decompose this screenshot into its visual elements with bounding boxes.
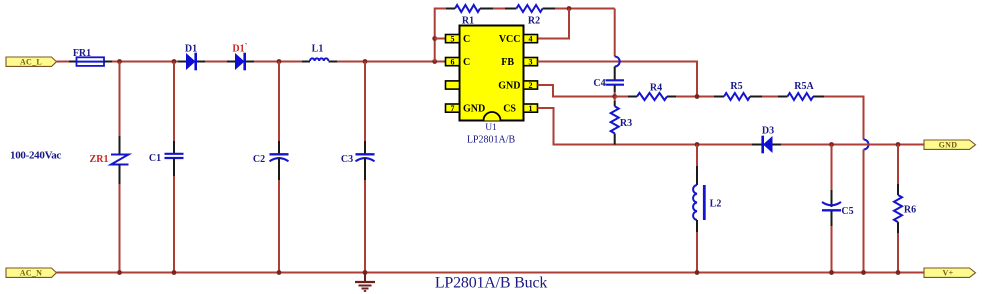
diode D3	[762, 126, 774, 154]
wire	[435, 9, 446, 62]
node junction	[363, 59, 368, 64]
svg-text:AC_N: AC_N	[20, 269, 43, 278]
wire	[57, 61, 70, 63]
svg-text:C4: C4	[593, 78, 605, 89]
wire	[555, 8, 615, 10]
svg-text:GND: GND	[463, 104, 485, 115]
wire	[863, 150, 865, 273]
svg-text:D1: D1	[185, 43, 197, 54]
resistor R6	[894, 145, 916, 273]
wire	[337, 61, 446, 63]
resistor R4	[637, 83, 667, 101]
wire hop	[615, 57, 620, 67]
svg-text:GND: GND	[498, 81, 520, 92]
node junction	[896, 270, 901, 275]
node junction	[117, 270, 122, 275]
svg-text:C: C	[463, 57, 470, 68]
pin 7	[446, 104, 460, 113]
wire	[676, 96, 714, 98]
IC U1 LP2801A/B	[460, 26, 524, 146]
ground	[355, 273, 375, 292]
svg-text:7: 7	[451, 104, 455, 113]
resistor R5A	[788, 81, 815, 100]
diode D1	[185, 43, 197, 70]
svg-text:C5: C5	[841, 206, 853, 217]
svg-text:2: 2	[529, 81, 533, 90]
svg-text:C1: C1	[149, 153, 161, 164]
wire VCC branch	[538, 9, 570, 39]
svg-text:4: 4	[529, 35, 533, 44]
wire	[628, 96, 637, 98]
node junction	[172, 270, 177, 275]
pin 6	[446, 58, 460, 67]
wire	[813, 96, 824, 98]
fuse FR1	[73, 48, 104, 66]
svg-text:L2: L2	[710, 199, 722, 210]
diode D1`	[232, 42, 247, 71]
port AC_L	[6, 57, 57, 67]
svg-text:5: 5	[451, 35, 455, 44]
svg-text:6: 6	[451, 58, 455, 67]
svg-text:D3: D3	[762, 126, 774, 137]
node junction	[829, 270, 834, 275]
node junction	[695, 94, 700, 99]
port GND	[924, 140, 976, 150]
svg-text:R3: R3	[620, 118, 632, 129]
wire	[762, 96, 778, 98]
wire	[773, 144, 782, 146]
pin 5	[446, 35, 460, 44]
node junction	[829, 142, 834, 147]
wire	[205, 61, 227, 63]
node junction	[567, 6, 572, 11]
wire	[329, 61, 338, 63]
svg-text:C2: C2	[253, 154, 265, 165]
port AC_N	[6, 268, 57, 278]
wire	[543, 8, 555, 10]
svg-text:LP2801A/B: LP2801A/B	[467, 135, 516, 146]
wire hop	[864, 140, 869, 150]
wire	[781, 144, 924, 146]
node junction	[277, 270, 282, 275]
svg-text:FB: FB	[501, 57, 514, 68]
svg-text:C: C	[463, 34, 470, 45]
wire pin2	[538, 85, 616, 97]
svg-text:U1: U1	[485, 123, 497, 133]
wire	[824, 97, 864, 140]
pin blank	[446, 81, 460, 89]
svg-text:1: 1	[529, 104, 533, 113]
wire	[69, 61, 77, 63]
varistor ZR1	[90, 62, 129, 273]
svg-text:GND: GND	[939, 141, 958, 150]
wire	[750, 96, 762, 98]
node junction	[432, 59, 437, 64]
svg-text:R4: R4	[650, 83, 662, 94]
resistor R3	[611, 97, 632, 145]
wire	[435, 38, 446, 40]
wire	[667, 96, 676, 98]
svg-text:C3: C3	[341, 154, 353, 165]
wire R4 row	[615, 96, 628, 98]
capacitor C5	[822, 145, 854, 273]
capacitor C2	[253, 62, 289, 273]
wire pin1 CS	[538, 108, 753, 145]
inductor L2	[693, 145, 721, 273]
wire	[112, 61, 178, 63]
svg-text:3: 3	[529, 58, 533, 67]
svg-text:ZR1: ZR1	[90, 154, 109, 165]
wire	[254, 61, 302, 63]
svg-text:VCC: VCC	[499, 34, 521, 45]
node junction	[172, 59, 177, 64]
svg-text:L1: L1	[312, 44, 324, 55]
wire	[446, 8, 455, 10]
node junction	[612, 94, 617, 99]
wire	[246, 61, 254, 63]
wire	[227, 61, 235, 63]
pin 2	[524, 81, 538, 90]
wire	[714, 96, 724, 98]
wire	[178, 61, 186, 63]
wire	[104, 61, 112, 63]
resistor R1	[455, 5, 480, 27]
wire bottom rail	[57, 272, 925, 274]
svg-text:R5: R5	[730, 81, 742, 92]
svg-text:AC_L: AC_L	[20, 58, 42, 67]
node junction	[695, 270, 700, 275]
resistor R5	[724, 81, 750, 100]
node junction	[861, 270, 866, 275]
resistor R2	[516, 5, 542, 27]
port V+	[924, 268, 976, 278]
svg-text:R6: R6	[904, 205, 916, 216]
svg-text:LP2801A/B Buck: LP2801A/B Buck	[435, 275, 548, 292]
wire	[302, 61, 310, 63]
pin 1	[524, 104, 538, 113]
wire	[505, 8, 516, 10]
capacitor C4	[593, 67, 624, 97]
svg-text:R5A: R5A	[794, 81, 814, 92]
inductor L1	[310, 44, 328, 62]
pin 4	[524, 35, 538, 44]
pin 3	[524, 58, 538, 67]
capacitor C1	[149, 62, 184, 273]
node junction	[277, 59, 282, 64]
wire	[493, 8, 505, 10]
svg-text:100-240Vac: 100-240Vac	[10, 149, 61, 161]
node junction	[896, 142, 901, 147]
svg-text:FR1: FR1	[73, 48, 91, 59]
capacitor C3	[341, 62, 375, 273]
svg-text:V+: V+	[943, 269, 954, 278]
wire	[752, 144, 762, 146]
wire	[197, 61, 205, 63]
wire FB	[538, 62, 698, 97]
wire top right drop	[614, 9, 616, 57]
svg-text:CS: CS	[503, 104, 516, 115]
node junction	[432, 36, 437, 41]
node junction	[117, 59, 122, 64]
svg-text:R2: R2	[528, 16, 540, 27]
wire	[778, 96, 788, 98]
wire	[480, 8, 493, 10]
node junction	[363, 270, 368, 275]
node junction	[695, 142, 700, 147]
